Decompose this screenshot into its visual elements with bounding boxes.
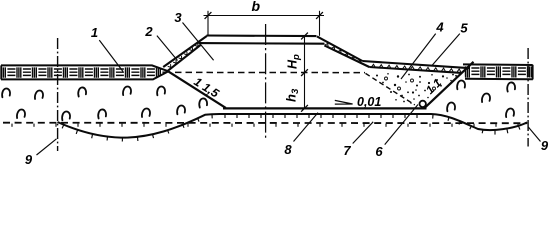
- label 4 leader: [401, 34, 436, 79]
- dike crest bottom edge: [199, 42, 325, 45]
- channel bottom: [223, 107, 427, 109]
- road band left (item 1): [1, 65, 169, 79]
- svg-text:h3: h3: [284, 88, 302, 102]
- channel left inner slope 1:1.5: [169, 72, 226, 108]
- label 9 leader: [528, 127, 540, 142]
- svg-text:2: 2: [144, 24, 153, 39]
- right borehole axis (item 9): [527, 48, 529, 147]
- svg-text:1 1: 1 1: [424, 77, 444, 97]
- depression curve (item 8): [58, 114, 528, 138]
- right slope lining band (item 3 area): [317, 36, 362, 61]
- label h3: [284, 88, 302, 102]
- label 1 leader: [99, 40, 123, 71]
- label 2 leader: [157, 36, 178, 61]
- svg-text:8: 8: [284, 142, 292, 157]
- road band right: [463, 64, 533, 79]
- svg-text:5: 5: [460, 21, 468, 36]
- svg-text:b: b: [252, 0, 261, 14]
- label 8 leader: [294, 113, 319, 142]
- svg-text:0,01: 0,01: [357, 95, 381, 109]
- left borehole axis (item 9): [57, 38, 59, 151]
- label 6 leader: [385, 105, 418, 145]
- svg-text:Hp: Hp: [286, 54, 303, 69]
- label Hp: [286, 54, 303, 69]
- svg-text:9: 9: [541, 138, 549, 153]
- filter backfill dots (item 4): [376, 73, 457, 104]
- bottom slope symbol: [335, 100, 353, 104]
- groundwater level dashed line (item 7): [3, 122, 527, 125]
- channel centre line: [265, 24, 267, 139]
- drain pipe outlet (item 6): [420, 101, 426, 107]
- label 5 leader: [431, 34, 460, 67]
- vertical dimension line Hp + h3: [304, 36, 306, 108]
- buried original slope (dashed diagonal): [366, 73, 415, 105]
- loam soil arc symbols: [2, 80, 515, 120]
- berm lining band (item 5): [362, 61, 470, 68]
- left slope lining band (item 2): [163, 36, 207, 67]
- svg-text:7: 7: [343, 143, 351, 158]
- slope label 1:1: [424, 77, 444, 97]
- dimension b extension lines and line with slash ticks: [207, 11, 209, 35]
- label 9 leader: [37, 139, 57, 155]
- label 3 leader: [183, 23, 214, 61]
- dike crest top edge: [207, 34, 317, 37]
- channel right slope 1:1: [424, 62, 473, 109]
- svg-text:3: 3: [174, 10, 182, 25]
- svg-text:1: 1: [91, 25, 98, 40]
- label 7 leader: [353, 122, 374, 144]
- svg-text:6: 6: [375, 144, 383, 159]
- svg-text:4: 4: [435, 20, 444, 35]
- svg-text:9: 9: [25, 152, 33, 166]
- design water level (dashed): [175, 71, 365, 73]
- slope label 1:1.5: [191, 74, 221, 100]
